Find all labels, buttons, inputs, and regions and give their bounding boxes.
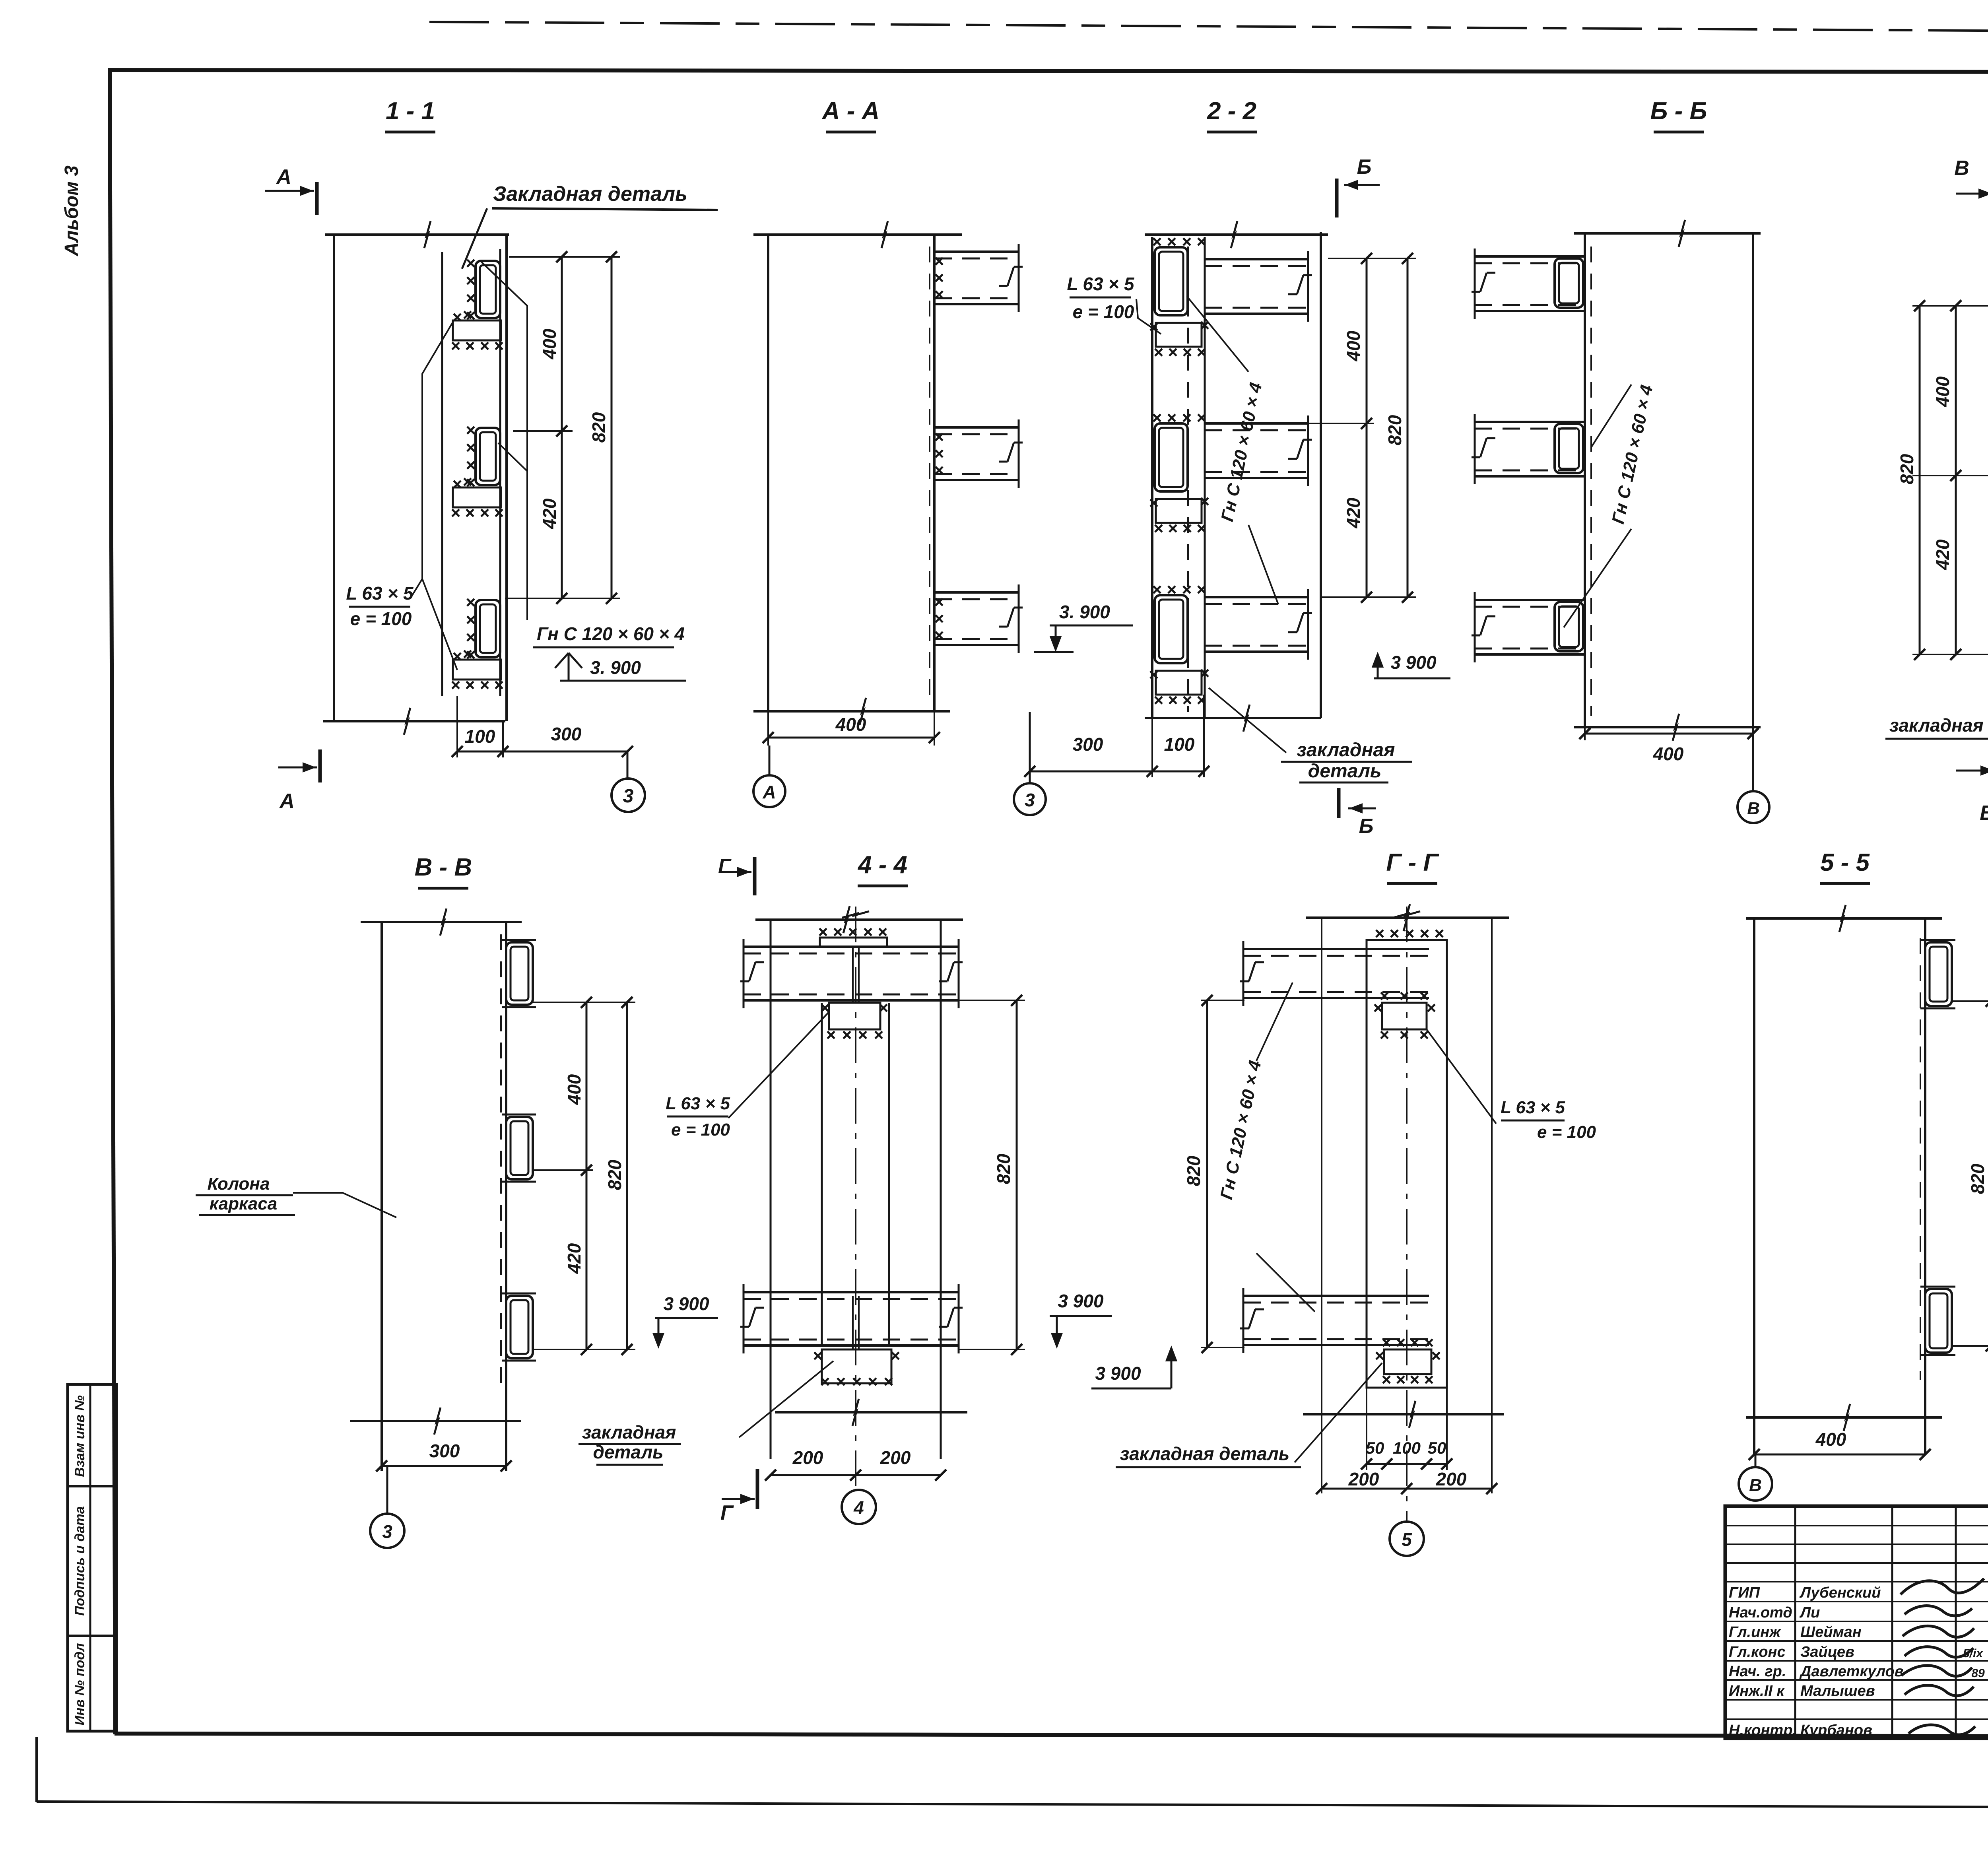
- svg-text:100: 100: [465, 726, 495, 747]
- svg-text:200: 200: [1436, 1469, 1467, 1489]
- svg-text:В: В: [1954, 157, 1969, 180]
- svg-text:Лубенский: Лубенский: [1799, 1584, 1881, 1601]
- svg-text:ГИП: ГИП: [1729, 1584, 1760, 1601]
- svg-text:Закладная деталь: Закладная деталь: [493, 183, 687, 206]
- svg-text:3 900: 3 900: [663, 1293, 709, 1314]
- svg-text:5: 5: [1402, 1529, 1412, 1550]
- svg-text:L 63 × 5: L 63 × 5: [1501, 1098, 1565, 1117]
- svg-text:400: 400: [1653, 744, 1684, 764]
- svg-text:Малышев: Малышев: [1800, 1683, 1875, 1699]
- svg-text:420: 420: [1343, 497, 1364, 528]
- svg-text:Колона: Колона: [208, 1174, 270, 1194]
- svg-text:400: 400: [539, 328, 560, 359]
- svg-text:3 900: 3 900: [1058, 1291, 1104, 1311]
- svg-text:820: 820: [604, 1159, 625, 1190]
- svg-text:L 63 × 5: L 63 × 5: [1067, 274, 1135, 294]
- svg-text:А: А: [279, 790, 295, 813]
- svg-text:3: 3: [623, 786, 634, 807]
- svg-text:Г: Г: [718, 855, 732, 878]
- svg-text:820: 820: [1967, 1163, 1988, 1194]
- svg-text:200: 200: [792, 1447, 823, 1468]
- svg-text:300: 300: [551, 724, 582, 744]
- svg-text:Г: Г: [720, 1501, 734, 1524]
- svg-text:3. 900: 3. 900: [1059, 602, 1110, 622]
- svg-text:Г - Г: Г - Г: [1386, 849, 1439, 876]
- svg-text:Ли: Ли: [1799, 1604, 1820, 1621]
- svg-text:2 - 2: 2 - 2: [1207, 97, 1256, 125]
- svg-text:Н.контр.: Н.контр.: [1729, 1722, 1797, 1739]
- svg-text:Шейман: Шейман: [1800, 1624, 1862, 1641]
- svg-text:Гн С 120 × 60 × 4: Гн С 120 × 60 × 4: [537, 623, 685, 644]
- svg-text:820: 820: [588, 412, 609, 443]
- svg-text:820: 820: [1384, 415, 1405, 445]
- svg-text:200: 200: [880, 1447, 911, 1468]
- svg-text:420: 420: [564, 1243, 584, 1274]
- svg-text:деталь: деталь: [1308, 761, 1382, 782]
- svg-text:400: 400: [1815, 1429, 1846, 1450]
- svg-text:В: В: [1980, 802, 1988, 825]
- svg-text:Инв № подл: Инв № подл: [72, 1643, 87, 1725]
- svg-text:300: 300: [429, 1441, 460, 1461]
- svg-text:89: 89: [1971, 1667, 1985, 1680]
- svg-text:4: 4: [853, 1497, 864, 1518]
- svg-text:А: А: [762, 782, 776, 802]
- svg-text:400: 400: [1343, 330, 1364, 361]
- svg-text:820: 820: [1897, 454, 1917, 484]
- svg-text:Б: Б: [1359, 815, 1374, 838]
- svg-text:Инж.II к: Инж.II к: [1729, 1683, 1785, 1699]
- svg-text:закладная деталь: закладная деталь: [1889, 715, 1988, 736]
- svg-text:Б - Б: Б - Б: [1650, 97, 1707, 125]
- svg-text:закладная: закладная: [582, 1422, 676, 1443]
- svg-text:Альбом 3: Альбом 3: [61, 165, 82, 256]
- svg-text:400: 400: [564, 1074, 584, 1105]
- svg-text:3: 3: [382, 1521, 392, 1542]
- svg-text:Нач. гр.: Нач. гр.: [1729, 1663, 1786, 1680]
- svg-text:Гл.конс: Гл.конс: [1729, 1644, 1786, 1660]
- svg-text:В: В: [1749, 1476, 1762, 1495]
- svg-text:Зайцев: Зайцев: [1800, 1644, 1854, 1660]
- svg-text:3: 3: [1025, 790, 1035, 810]
- svg-text:420: 420: [539, 498, 560, 529]
- svg-text:Взам инв №: Взам инв №: [72, 1395, 87, 1477]
- svg-text:Б: Б: [1357, 155, 1372, 179]
- svg-text:В - В: В - В: [415, 854, 472, 881]
- svg-text:А: А: [276, 165, 291, 188]
- svg-text:закладная: закладная: [1297, 740, 1395, 761]
- svg-text:5 - 5: 5 - 5: [1820, 849, 1870, 876]
- svg-text:3. 900: 3. 900: [590, 657, 641, 678]
- svg-text:1 - 1: 1 - 1: [386, 97, 435, 125]
- svg-text:100: 100: [1393, 1439, 1421, 1457]
- svg-text:e = 100: e = 100: [1073, 301, 1134, 322]
- svg-text:3 900: 3 900: [1095, 1363, 1141, 1384]
- svg-text:50: 50: [1366, 1439, 1384, 1457]
- svg-text:В: В: [1747, 799, 1760, 818]
- svg-text:Нач.отд: Нач.отд: [1729, 1604, 1792, 1621]
- svg-text:4 - 4: 4 - 4: [857, 851, 907, 879]
- svg-text:100: 100: [1164, 734, 1195, 755]
- svg-text:300: 300: [1073, 734, 1103, 755]
- svg-text:420: 420: [1932, 539, 1953, 570]
- svg-text:400: 400: [835, 714, 866, 735]
- svg-text:закладная деталь: закладная деталь: [1120, 1443, 1289, 1464]
- svg-text:3 900: 3 900: [1390, 652, 1437, 673]
- svg-text:200: 200: [1348, 1469, 1379, 1489]
- svg-text:400: 400: [1932, 376, 1953, 407]
- svg-text:50: 50: [1428, 1439, 1446, 1457]
- svg-text:Гл.инж: Гл.инж: [1729, 1624, 1781, 1641]
- svg-text:820: 820: [993, 1153, 1014, 1184]
- svg-text:e = 100: e = 100: [671, 1120, 730, 1140]
- svg-text:L 63 × 5: L 63 × 5: [346, 583, 414, 604]
- svg-text:L 63 × 5: L 63 × 5: [666, 1094, 730, 1113]
- svg-text:каркаса: каркаса: [210, 1194, 277, 1213]
- svg-text:Подпись и дата: Подпись и дата: [72, 1506, 87, 1616]
- svg-text:Курбанов: Курбанов: [1800, 1722, 1872, 1739]
- svg-text:e = 100: e = 100: [350, 608, 412, 629]
- svg-text:Давлеткулов: Давлеткулов: [1799, 1663, 1904, 1680]
- svg-text:820: 820: [1183, 1155, 1204, 1186]
- svg-text:А - А: А - А: [821, 97, 880, 125]
- svg-text:e = 100: e = 100: [1537, 1122, 1596, 1142]
